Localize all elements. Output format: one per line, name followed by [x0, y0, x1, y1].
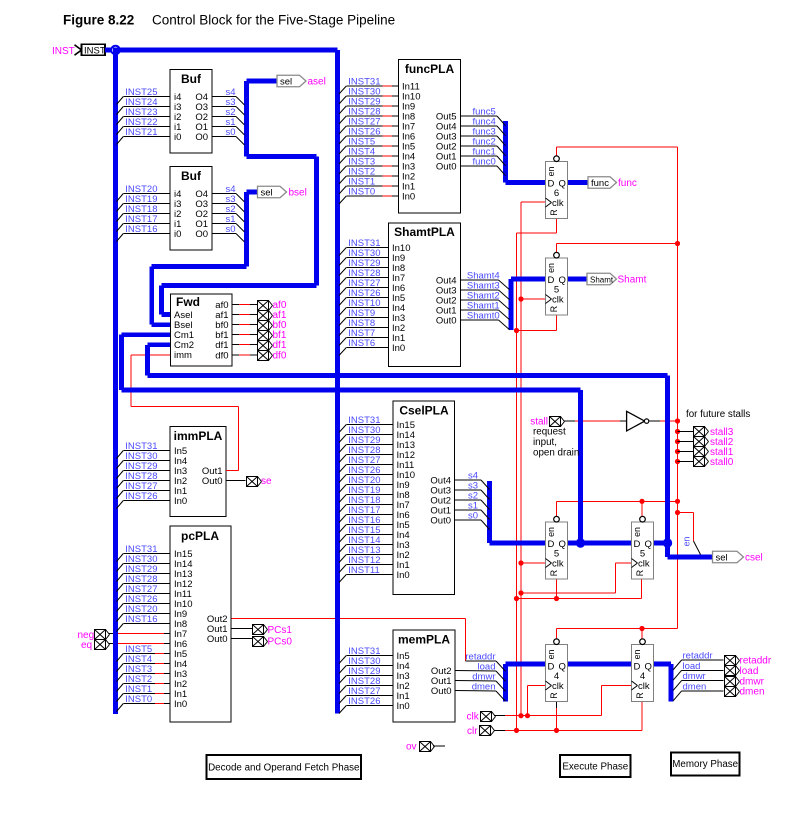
svg-text:Buf: Buf [181, 169, 202, 183]
svg-text:Out0: Out0 [436, 162, 457, 173]
svg-text:dmen: dmen [740, 687, 765, 698]
svg-text:clk: clk [638, 559, 650, 570]
svg-text:Out0: Out0 [207, 634, 228, 645]
svg-text:sel: sel [716, 552, 728, 563]
svg-text:en: en [632, 527, 642, 537]
svg-text:clk: clk [638, 681, 650, 692]
svg-text:INST16: INST16 [125, 224, 157, 235]
svg-text:ov: ov [406, 742, 417, 753]
svg-text:Execute Phase: Execute Phase [562, 762, 628, 773]
svg-text:se: se [261, 476, 272, 487]
svg-text:Out0: Out0 [202, 476, 223, 487]
svg-text:clk: clk [552, 198, 564, 209]
svg-text:ShamtPLA: ShamtPLA [394, 225, 455, 239]
svg-text:Control Block for the Five-Sta: Control Block for the Five-Stage Pipelin… [152, 13, 395, 28]
svg-text:In0: In0 [174, 699, 187, 710]
svg-text:Memory Phase: Memory Phase [672, 759, 738, 770]
svg-text:PCs0: PCs0 [268, 637, 293, 648]
svg-text:Q: Q [559, 275, 566, 286]
svg-text:en: en [546, 167, 556, 177]
svg-text:df0: df0 [273, 350, 287, 361]
svg-text:INST21: INST21 [125, 127, 157, 138]
svg-text:open drain: open drain [533, 448, 579, 459]
svg-text:R: R [549, 570, 559, 576]
svg-text:R: R [635, 570, 645, 576]
svg-text:INST0: INST0 [125, 694, 152, 705]
svg-text:input,: input, [533, 437, 557, 448]
svg-text:In0: In0 [402, 192, 415, 203]
svg-text:request: request [533, 427, 566, 438]
svg-text:en: en [546, 527, 556, 537]
svg-text:Out0: Out0 [430, 516, 451, 527]
svg-text:INST11: INST11 [348, 565, 380, 576]
svg-text:Q: Q [559, 539, 566, 550]
svg-text:INST26: INST26 [125, 491, 157, 502]
svg-text:R: R [635, 692, 645, 698]
svg-text:s0: s0 [226, 127, 236, 138]
svg-text:clk: clk [552, 681, 564, 692]
svg-text:O0: O0 [195, 229, 208, 240]
svg-text:stall0: stall0 [710, 457, 734, 468]
svg-text:R: R [549, 692, 559, 698]
svg-text:dmen: dmen [683, 681, 707, 692]
svg-text:In0: In0 [174, 496, 187, 507]
svg-text:s0: s0 [226, 224, 236, 235]
svg-text:Q: Q [645, 539, 652, 550]
svg-text:Out0: Out0 [436, 316, 457, 327]
svg-text:func: func [618, 178, 637, 189]
svg-text:en: en [546, 650, 556, 660]
svg-text:sel: sel [280, 76, 292, 87]
svg-text:Q: Q [559, 662, 566, 673]
svg-text:INST: INST [84, 46, 106, 57]
svg-text:sel: sel [261, 187, 273, 198]
svg-text:O0: O0 [195, 132, 208, 143]
svg-text:en: en [682, 537, 692, 547]
svg-text:In0: In0 [397, 570, 410, 581]
svg-text:for future stalls: for future stalls [686, 409, 750, 420]
svg-text:Shamt0: Shamt0 [467, 311, 500, 322]
svg-text:en: en [546, 263, 556, 273]
svg-text:s0: s0 [468, 511, 478, 522]
svg-text:func0: func0 [473, 157, 496, 168]
svg-text:clr: clr [467, 726, 478, 737]
svg-text:R: R [549, 306, 559, 312]
svg-text:Q: Q [645, 662, 652, 673]
svg-text:Fwd: Fwd [176, 295, 200, 309]
svg-text:INST16: INST16 [125, 614, 157, 625]
svg-text:en: en [632, 650, 642, 660]
svg-text:INST6: INST6 [348, 338, 375, 349]
svg-text:INST26: INST26 [348, 696, 380, 707]
svg-text:clk: clk [467, 712, 480, 723]
svg-text:Decode and Operand Fetch Phase: Decode and Operand Fetch Phase [208, 763, 360, 774]
svg-text:imm: imm [174, 350, 192, 361]
svg-text:df0: df0 [215, 350, 228, 361]
svg-text:clk: clk [552, 295, 564, 306]
svg-text:In0: In0 [392, 343, 405, 354]
svg-text:In0: In0 [397, 701, 410, 712]
svg-text:eq: eq [81, 640, 92, 651]
svg-text:Out0: Out0 [431, 686, 452, 697]
svg-text:Shamt: Shamt [618, 275, 647, 286]
svg-text:i0: i0 [174, 229, 181, 240]
svg-text:csel: csel [745, 553, 763, 564]
svg-text:Q: Q [559, 179, 566, 190]
svg-text:Figure 8.22: Figure 8.22 [63, 13, 134, 28]
svg-text:clk: clk [552, 559, 564, 570]
svg-text:CselPLA: CselPLA [399, 404, 449, 418]
svg-text:Buf: Buf [181, 72, 202, 86]
svg-text:INST: INST [52, 46, 75, 57]
svg-text:Shamt: Shamt [590, 275, 614, 284]
svg-text:immPLA: immPLA [174, 429, 223, 443]
svg-text:func: func [591, 178, 609, 189]
svg-text:funcPLA: funcPLA [405, 62, 455, 76]
svg-text:i0: i0 [174, 132, 181, 143]
svg-text:pcPLA: pcPLA [181, 529, 219, 543]
svg-text:PCs1: PCs1 [268, 625, 293, 636]
svg-text:INST0: INST0 [348, 187, 375, 198]
svg-text:R: R [549, 209, 559, 215]
svg-text:bsel: bsel [289, 188, 307, 199]
svg-text:dmen: dmen [472, 682, 496, 693]
svg-text:asel: asel [308, 77, 326, 88]
svg-text:memPLA: memPLA [398, 633, 450, 647]
